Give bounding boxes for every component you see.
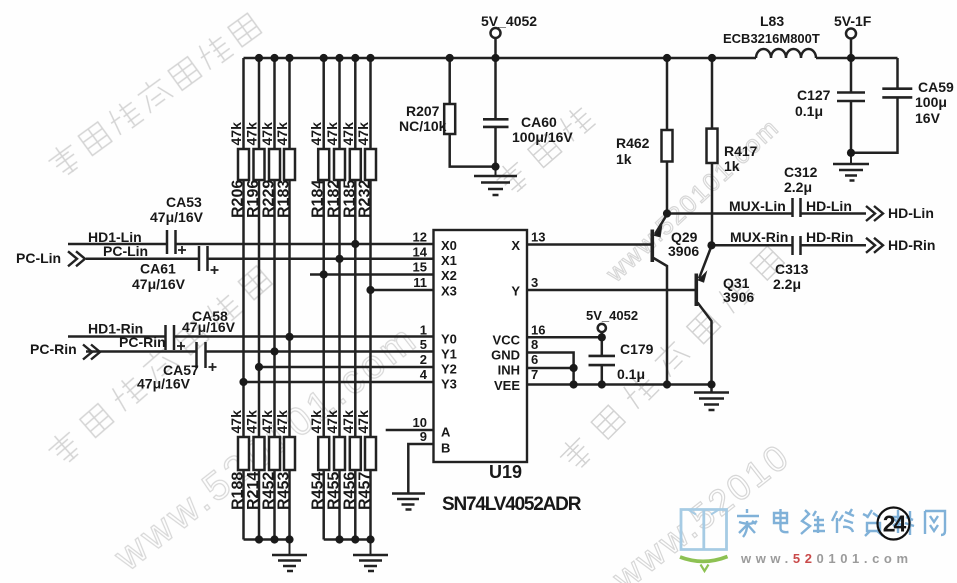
capacitor CA59 [851, 58, 912, 153]
chevron HD-Rin output [866, 238, 883, 253]
watermark hanzi chain upper-left [44, 10, 262, 180]
svg-text:0.1μ: 0.1μ [617, 366, 645, 382]
svg-text:47k: 47k [355, 410, 371, 434]
node bus c4 [285, 54, 293, 62]
IC U19 box [434, 230, 528, 462]
resistor R417 [707, 58, 718, 245]
logo hanzi 料 [892, 510, 914, 535]
wire resistor column c4 [288, 58, 291, 540]
chevron PC-Rin input [83, 345, 100, 360]
node VCC [598, 333, 606, 341]
node X3 tap [366, 286, 374, 294]
wire resistor column c1 [242, 58, 245, 540]
resistor R232 [365, 149, 376, 180]
capacitor CA53 [167, 230, 186, 254]
wire top supply bus [244, 57, 898, 60]
resistor R229 [269, 149, 280, 180]
svg-text:47k: 47k [324, 410, 340, 434]
svg-text:L83: L83 [760, 13, 784, 29]
node X0 tap [351, 240, 359, 248]
wire INH pin6 [527, 368, 574, 385]
resistor R457 [365, 437, 376, 470]
node R207/CA60 bottom [491, 163, 499, 171]
logo hanzi 修 [832, 509, 854, 533]
node bus c2 [255, 54, 263, 62]
svg-text:MUX-Lin: MUX-Lin [729, 198, 786, 214]
logo hanzi 资 [863, 510, 883, 536]
ground under left resistor group [272, 540, 307, 572]
svg-text:3906: 3906 [668, 243, 699, 259]
svg-text:R184: R184 [310, 180, 327, 218]
node bus R462 [663, 54, 671, 62]
wire HD1-Rin to Y0 [68, 335, 434, 338]
ground under Q31/VEE [694, 393, 729, 411]
resistor R206 [238, 149, 249, 180]
node join c3 [270, 535, 278, 543]
node MUX-Lin [663, 209, 671, 217]
svg-text:ECB3216M800T: ECB3216M800T [723, 31, 820, 46]
svg-text:4: 4 [420, 367, 428, 382]
resistor R454 [318, 437, 329, 470]
resistor R453 [284, 437, 295, 470]
svg-text:47k: 47k [340, 410, 356, 434]
capacitor C127 [837, 58, 865, 153]
svg-text:R232: R232 [357, 180, 374, 218]
wire VCC to 5V_4052 [527, 336, 602, 339]
resistor R182 [334, 149, 345, 180]
node VEE d [707, 380, 715, 388]
node bus R207 [446, 54, 454, 62]
svg-text:PC-Rin: PC-Rin [30, 341, 77, 357]
svg-text:R462: R462 [616, 135, 650, 151]
svg-text:47k: 47k [244, 122, 260, 146]
node bus CA60 [491, 54, 499, 62]
svg-text:5V-1F: 5V-1F [834, 13, 872, 29]
ground under right resistor group [353, 540, 388, 572]
svg-text:5V_4052: 5V_4052 [481, 13, 537, 29]
wire resistor column c2 [258, 58, 261, 540]
wire pin9 B to ground [408, 444, 433, 493]
svg-text:9: 9 [420, 429, 427, 444]
capacitor C312 [793, 198, 801, 217]
svg-text:10: 10 [413, 415, 427, 430]
chevron PC-Lin input [68, 251, 85, 266]
wire HD1-Lin to X0 [68, 243, 434, 246]
transistor Q31 [696, 246, 711, 392]
svg-text:R183: R183 [276, 180, 293, 218]
wire X pin13 to Q29 base [527, 243, 651, 246]
watermark hanzi chain mid-right [555, 243, 786, 474]
capacitor CA60 [483, 58, 509, 167]
resistor R188 [238, 437, 249, 470]
svg-text:GND: GND [491, 348, 520, 363]
svg-text:5V_4052: 5V_4052 [586, 308, 638, 323]
svg-text:HD-Lin: HD-Lin [888, 205, 934, 221]
svg-text:2: 2 [420, 352, 427, 367]
node VEE c [663, 380, 671, 388]
svg-text:VEE: VEE [494, 378, 520, 393]
wire resistor column c3 [273, 58, 276, 540]
wire resistor column c7 [354, 58, 357, 540]
svg-text:R214: R214 [245, 472, 262, 510]
node bus 5V-1F [847, 54, 855, 62]
svg-text:47k: 47k [274, 122, 290, 146]
node X1 tap [335, 255, 343, 263]
svg-text:C312: C312 [784, 164, 818, 180]
wire MUX-Lin [667, 212, 793, 215]
logo hanzi 电 [774, 509, 789, 532]
watermark hanzi chain top-center partial [492, 102, 596, 198]
svg-text:PC-Rin: PC-Rin [119, 334, 166, 350]
svg-text:0.1μ: 0.1μ [795, 103, 823, 119]
svg-text:15: 15 [413, 260, 427, 275]
svg-text:47k: 47k [308, 122, 324, 146]
logo hanzi 维 [801, 510, 825, 534]
resistor R207 [444, 58, 495, 167]
svg-text:47k: 47k [308, 410, 324, 434]
logo green swoosh [680, 557, 728, 562]
wire HD-Rin out [801, 244, 867, 247]
resistor R452 [269, 437, 280, 470]
ground at pin B [392, 494, 425, 510]
svg-text:47k: 47k [324, 122, 340, 146]
node 5V_4052 terminal top [491, 28, 501, 58]
wire VEE pin7 [527, 383, 712, 386]
node X2 tap [320, 270, 328, 278]
wire resistor column c6 [338, 58, 341, 540]
ground right under C127 [833, 153, 869, 181]
rotated resistor labels [228, 122, 374, 510]
svg-text:47μ/16V: 47μ/16V [137, 376, 191, 392]
wire bottom join left group [244, 538, 290, 541]
svg-text:1k: 1k [724, 158, 740, 174]
capacitor C313 [793, 236, 801, 255]
svg-text:VCC: VCC [493, 333, 521, 348]
node Y3 tap [239, 378, 247, 386]
svg-text:12: 12 [413, 230, 427, 245]
svg-text:X0: X0 [441, 238, 457, 253]
capacitor CA58 [166, 325, 186, 350]
svg-text:R188: R188 [230, 472, 247, 510]
svg-text:CA59: CA59 [918, 79, 954, 95]
svg-text:5: 5 [420, 337, 427, 352]
wire bottom join right group [324, 538, 371, 541]
svg-text:47k: 47k [355, 122, 371, 146]
node join c4 [285, 535, 293, 543]
svg-text:47μ/16V: 47μ/16V [182, 319, 236, 335]
node join c6 [335, 535, 343, 543]
node join c7 [351, 535, 359, 543]
resistor R462 [662, 58, 673, 214]
svg-text:13: 13 [531, 230, 545, 245]
svg-text:2.2μ: 2.2μ [773, 276, 801, 292]
svg-text:www.520101.com: www.520101.com [740, 551, 913, 566]
node Y1 tap [270, 347, 278, 355]
svg-text:100μ/16V: 100μ/16V [512, 129, 573, 145]
svg-text:47k: 47k [274, 410, 290, 434]
svg-text:R457: R457 [357, 472, 374, 510]
svg-text:HD-Rin: HD-Rin [888, 237, 935, 253]
chevron HD-Lin output [866, 206, 883, 221]
svg-text:Y0: Y0 [441, 332, 457, 347]
svg-text:X3: X3 [441, 284, 457, 299]
logo hanzi 家 [737, 509, 759, 537]
wire Y pin3 to Q31 base [527, 289, 695, 292]
wire X3 from column c8 [371, 289, 434, 292]
pin numbers [413, 230, 428, 445]
node bus c8 [366, 54, 374, 62]
svg-text:47k: 47k [340, 122, 356, 146]
svg-text:CA61: CA61 [140, 261, 176, 277]
node MUX-Rin [707, 241, 715, 249]
svg-text:24: 24 [883, 511, 907, 537]
wire resistor column c8 [369, 58, 372, 540]
svg-text:HD-Rin: HD-Rin [806, 229, 853, 245]
node INH [570, 364, 578, 372]
wire HD-Lin out [801, 212, 867, 215]
svg-text:16V: 16V [915, 110, 941, 126]
resistor R455 [334, 437, 345, 470]
svg-text:U19: U19 [489, 462, 522, 482]
svg-text:R207: R207 [406, 103, 440, 119]
node bus c7 [351, 54, 359, 62]
logo book icon [681, 510, 727, 550]
logo hanzi 网 [925, 511, 945, 535]
svg-text:A: A [441, 425, 451, 440]
svg-text:CA60: CA60 [521, 114, 557, 130]
svg-text:Y2: Y2 [441, 362, 457, 377]
node join c2 [255, 535, 263, 543]
svg-text:11: 11 [413, 275, 427, 290]
svg-text:NC/10k: NC/10k [399, 118, 447, 134]
svg-text:B: B [441, 441, 450, 456]
svg-text:100μ: 100μ [915, 94, 947, 110]
svg-text:MUX-Rin: MUX-Rin [730, 229, 788, 245]
svg-text:47k: 47k [228, 410, 244, 434]
svg-text:R453: R453 [276, 472, 293, 510]
transistor Q29 [652, 215, 667, 385]
svg-text:Y1: Y1 [441, 347, 457, 362]
wire PC-Lin to X1 [86, 258, 434, 261]
wire resistor column c5 [322, 58, 325, 540]
svg-text:SN74LV4052ADR: SN74LV4052ADR [442, 494, 582, 515]
svg-text:47μ/16V: 47μ/16V [132, 276, 186, 292]
svg-text:16: 16 [531, 323, 545, 338]
svg-text:INH: INH [498, 363, 520, 378]
wire pin10 A stub [386, 429, 434, 432]
svg-text:C179: C179 [620, 341, 654, 357]
resistor R183 [284, 149, 295, 180]
svg-text:Y: Y [511, 284, 520, 299]
svg-text:1k: 1k [616, 151, 632, 167]
resistor R456 [350, 437, 361, 470]
svg-text:3: 3 [531, 275, 538, 290]
watermark hanzi chain mid-left [44, 263, 273, 468]
svg-text:HD-Lin: HD-Lin [806, 198, 852, 214]
wire Y3 from column c1 [244, 381, 434, 384]
node VEE a [570, 380, 578, 388]
svg-text:47μ/16V: 47μ/16V [150, 209, 204, 225]
wire PC-Rin to Y1 [86, 350, 434, 353]
svg-text:PC-Lin: PC-Lin [103, 243, 148, 259]
svg-text:47k: 47k [244, 410, 260, 434]
resistor R185 [350, 149, 361, 180]
svg-text:X1: X1 [441, 253, 457, 268]
svg-text:X: X [511, 238, 520, 253]
node C127/CA59 [847, 149, 855, 157]
capacitor CA61 [199, 246, 219, 274]
node bus c6 [335, 54, 343, 62]
svg-text:C127: C127 [797, 87, 831, 103]
resistor R196 [254, 149, 265, 180]
svg-text:6: 6 [531, 352, 538, 367]
stamp circled 24 [878, 508, 910, 540]
svg-text:R417: R417 [724, 143, 758, 159]
wire GND pin8 [527, 353, 574, 369]
resistor R214 [254, 437, 265, 470]
capacitor C179 [589, 337, 616, 384]
svg-text:R455: R455 [326, 472, 343, 510]
svg-text:47k: 47k [228, 122, 244, 146]
svg-text:R454: R454 [310, 472, 327, 510]
svg-text:Y3: Y3 [441, 377, 457, 392]
svg-text:X2: X2 [441, 268, 457, 283]
node bus R417 [708, 54, 716, 62]
svg-text:R206: R206 [230, 180, 247, 218]
svg-text:1: 1 [420, 323, 427, 338]
svg-text:8: 8 [531, 337, 538, 352]
svg-text:R196: R196 [245, 180, 262, 218]
wire Y2 from column c2 [259, 366, 434, 369]
svg-text:47k: 47k [259, 410, 275, 434]
node Y0 tap [285, 333, 293, 341]
node join c8 [366, 535, 374, 543]
svg-text:C313: C313 [775, 261, 809, 277]
svg-text:PC-Lin: PC-Lin [16, 250, 61, 266]
svg-text:2.2μ: 2.2μ [784, 179, 812, 195]
node bus c3 [270, 54, 278, 62]
svg-text:CA53: CA53 [166, 194, 202, 210]
svg-text:7: 7 [531, 367, 538, 382]
node bus c5 [320, 54, 328, 62]
svg-text:14: 14 [413, 244, 428, 259]
svg-text:47k: 47k [259, 122, 275, 146]
node Y2 tap [255, 363, 263, 371]
node 5V_4052 at VCC [598, 324, 606, 337]
node VEE b [598, 380, 606, 388]
svg-text:R182: R182 [326, 180, 343, 218]
resistor R184 [318, 149, 329, 180]
wire MUX-Rin [712, 244, 793, 247]
wire X2 from column c5 [310, 273, 434, 276]
node 5V-1F terminal [846, 29, 856, 59]
inductor L83 [756, 49, 816, 58]
ground under CA60 [474, 167, 517, 195]
capacitor CA57 [197, 342, 217, 371]
svg-text:3906: 3906 [723, 289, 754, 305]
